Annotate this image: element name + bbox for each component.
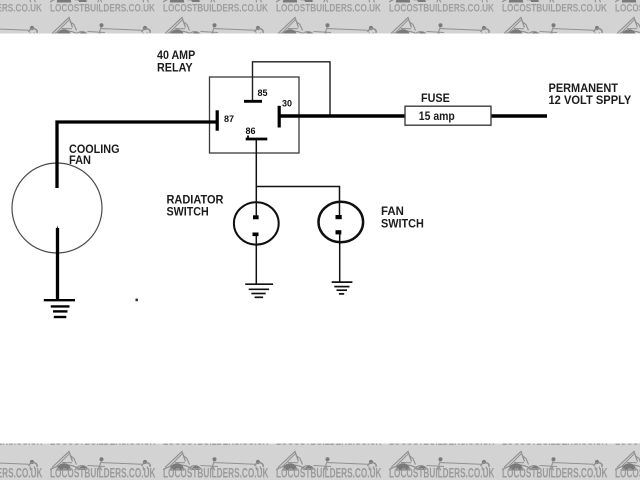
- svg-text:85: 85: [258, 88, 268, 98]
- svg-text:86: 86: [246, 126, 256, 136]
- svg-text:15 amp: 15 amp: [419, 109, 455, 123]
- svg-text:30: 30: [282, 99, 292, 109]
- svg-text:12 VOLT SPPLY: 12 VOLT SPPLY: [549, 93, 632, 107]
- svg-text:SWITCH: SWITCH: [167, 205, 209, 219]
- svg-text:87: 87: [224, 114, 234, 124]
- svg-text:SWITCH: SWITCH: [381, 217, 424, 231]
- svg-text:FAN: FAN: [69, 153, 91, 167]
- svg-text:RELAY: RELAY: [157, 61, 193, 75]
- svg-text:FUSE: FUSE: [421, 91, 450, 105]
